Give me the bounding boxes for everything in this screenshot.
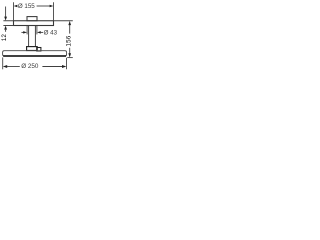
height dimension down arrow xyxy=(68,53,71,57)
dimension Ø 250 left arrow xyxy=(3,65,7,68)
svg-text:Ø 43: Ø 43 xyxy=(44,29,58,36)
dimension Ø 155 arrow right xyxy=(50,5,54,8)
shower head disc spray face xyxy=(3,55,66,57)
dimension Ø 43 left arrow xyxy=(23,31,27,34)
dimension Ø 43 right arrow xyxy=(37,31,41,34)
height dimension up arrow xyxy=(68,21,71,25)
shower pipe xyxy=(29,26,36,47)
height dimension line lower segment xyxy=(69,48,71,54)
dimension Ø 43 extension line left xyxy=(26,26,28,34)
svg-text:12: 12 xyxy=(1,34,8,42)
dimension Ø 43 right arrow tail xyxy=(41,31,43,33)
dimension Ø 155 arrow left xyxy=(14,5,18,8)
connection stub xyxy=(27,17,37,21)
dimension Ø 250 extension line left xyxy=(2,57,4,69)
dimension Ø 155 extension line left xyxy=(13,2,15,20)
thickness dimension up arrow xyxy=(4,26,7,30)
dimension Ø 155 extension line right xyxy=(53,2,55,20)
height dimension bottom extension line xyxy=(67,57,73,59)
thickness dimension upper tail xyxy=(5,7,7,18)
dimension Ø 250 line right segment xyxy=(42,66,62,68)
height dimension line upper segment xyxy=(69,25,71,34)
union nut xyxy=(27,47,38,51)
thickness dimension lower tail xyxy=(5,30,7,32)
svg-text:Ø 250: Ø 250 xyxy=(21,63,39,70)
shower head disc xyxy=(3,51,67,56)
dimension Ø 250 line left segment xyxy=(7,66,20,68)
joint detail box xyxy=(37,48,41,52)
dimension Ø 43 left arrow tail xyxy=(21,31,23,33)
dimension Ø 250 right arrow xyxy=(62,65,66,68)
thickness dimension extension lines xyxy=(3,21,13,26)
dimension Ø 155 line xyxy=(37,5,50,7)
ceiling plate xyxy=(14,21,54,26)
thickness dimension down arrow xyxy=(4,17,7,21)
height dimension top extension line xyxy=(54,20,73,22)
dimension Ø 250 extension line right xyxy=(66,58,68,70)
dimension Ø 43 extension line right xyxy=(36,26,38,34)
svg-text:156: 156 xyxy=(66,35,73,46)
svg-text:Ø 155: Ø 155 xyxy=(18,3,35,10)
